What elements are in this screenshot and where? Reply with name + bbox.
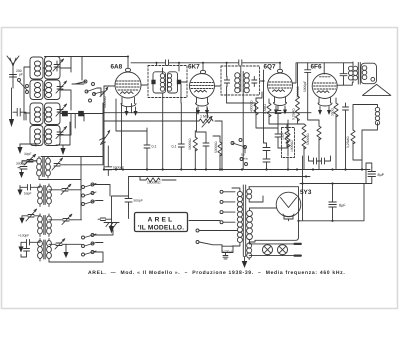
potentiometer volume 1M [104, 116, 222, 169]
wave switch bank upper [82, 183, 97, 206]
svg-text:30000Ω: 30000Ω [188, 138, 192, 150]
bus ground main [104, 169, 370, 171]
power transformer 5V winding [247, 187, 255, 202]
resistor 6F6 bias [317, 126, 321, 145]
svg-text:6F6: 6F6 [311, 64, 322, 71]
capacitor 5000pF bypass [105, 146, 112, 176]
power transformer T4 core [243, 185, 245, 257]
wire right verticals [303, 114, 346, 184]
resistor 6K7 cathode [193, 131, 197, 170]
ground padder C [18, 242, 26, 257]
ground coil A row [17, 144, 36, 154]
ground mains filter [223, 256, 228, 259]
capacitor 6F6 grid coupling [305, 63, 319, 126]
svg-text:5Y3: 5Y3 [300, 189, 312, 196]
wire T1 bottoms [163, 84, 181, 169]
svg-text:+100pF: +100pF [18, 234, 29, 238]
padder coil group C [38, 239, 52, 262]
wire 6K7 drops [195, 108, 207, 131]
padder coil group A [38, 184, 52, 207]
svg-text:8μF: 8μF [378, 173, 385, 177]
svg-text:0,1: 0,1 [152, 145, 157, 149]
svg-text:40000Ω: 40000Ω [250, 100, 254, 112]
power transformer 6.3V winding [247, 242, 252, 260]
resistor field divider [351, 107, 355, 152]
trimmer capacitor padder B [22, 209, 40, 221]
arrows 6A8 heater [125, 107, 138, 116]
svg-text:5000pF: 5000pF [223, 250, 233, 254]
ground padder A [17, 186, 22, 196]
svg-text:350Ω: 350Ω [331, 107, 335, 116]
oscillator trimmer 30pF [22, 154, 37, 165]
capacitor 6F6 cathode [340, 63, 347, 85]
svg-text:5000pF: 5000pF [303, 81, 307, 92]
wire antenna lead [12, 82, 14, 88]
wire 8uF right connect [366, 163, 372, 184]
capacitor coupling to 6Q7 [203, 60, 280, 70]
wire AVC link [129, 177, 141, 197]
ground oscillator [19, 169, 24, 178]
wire 6F6 plate to T3 [324, 63, 353, 85]
svg-text:5000pF: 5000pF [113, 166, 124, 170]
svg-text:6K7: 6K7 [188, 64, 200, 71]
ground coil B row [56, 122, 70, 155]
capacitor 0.1 right [178, 103, 184, 170]
svg-text:Fonia: Fonia [240, 157, 248, 161]
tube 6K7 U2 [190, 70, 215, 106]
svg-text:20000Ω: 20000Ω [296, 86, 300, 98]
svg-text:40000Ω: 40000Ω [103, 96, 107, 108]
pilot lamp L1 [263, 245, 273, 255]
coil box B4 [45, 126, 61, 146]
ground transformer center tap [242, 257, 248, 269]
svg-text:1 MΩ: 1 MΩ [200, 115, 209, 119]
capacitor 6Q7 [275, 106, 281, 118]
coil box A3 [30, 103, 43, 125]
trimmer capacitor B3 [56, 104, 67, 116]
wire padder outputs [66, 190, 82, 245]
wire oscillator to bus [22, 103, 103, 208]
capacitor coupling 6A8 osc [131, 60, 203, 71]
transformer primary taps [220, 190, 235, 223]
arrow AVC diagonal [100, 87, 109, 97]
svg-text:100000Ω: 100000Ω [147, 181, 161, 185]
capacitor screen bypass [197, 132, 210, 170]
coil box B2 [45, 80, 61, 100]
IF transformer T2 box [221, 66, 260, 95]
antenna [7, 56, 19, 77]
wire mains feed [189, 221, 238, 231]
capacitor 500pF detector [125, 196, 132, 205]
IF T1 secondary assembly [167, 72, 177, 93]
IF T1 trimmer left [151, 80, 155, 85]
capacitor detector bypass [98, 218, 112, 221]
capacitor 6F6 cathode bypass [343, 103, 349, 114]
wire 6K7 to T2 [215, 63, 267, 143]
power transformer primary winding [232, 188, 242, 246]
wire switch to grid bus [72, 84, 104, 112]
resistor 6Q7 grid leak [267, 99, 271, 120]
pilot lamp L2 [278, 245, 288, 255]
capacitor antenna 200pF [10, 75, 17, 83]
output transformer T3 [349, 62, 367, 84]
capacitor oscillator padder [18, 167, 27, 170]
arrows 6K7 heater [196, 107, 209, 116]
label box AREL [135, 213, 188, 232]
coil box B1 [45, 57, 61, 80]
ground detector arrow [104, 196, 129, 234]
wire 6Q7 couplings [256, 92, 297, 148]
capacitor AF coupling 10nF [275, 129, 281, 141]
IF T2 secondary coil [243, 72, 249, 93]
ground padder B [19, 216, 24, 224]
resistor AVC series [213, 136, 222, 170]
capacitor 0.1 left [144, 131, 150, 170]
ground padder C right [63, 244, 68, 258]
coil box A2 [30, 80, 43, 100]
wire filament lamps [249, 244, 297, 256]
IF T2 trimmer left [224, 77, 229, 87]
power transformer HV winding [247, 208, 255, 242]
bus AVC [129, 176, 311, 178]
svg-text:500pF: 500pF [134, 199, 143, 203]
resistor 6Q7 plate load [254, 98, 258, 118]
trimmer capacitor B2 [56, 81, 67, 93]
coil box A1 [30, 57, 43, 79]
tube 5Y3 rectifier [276, 192, 301, 219]
capacitor 8uF right [368, 168, 376, 181]
junction dots bus [103, 56, 363, 222]
svg-text:3000pF: 3000pF [16, 162, 27, 166]
trimmer block row3 a [62, 111, 68, 116]
resistor 6F6 cathode [334, 98, 338, 121]
svg-text:30pF: 30pF [24, 152, 32, 156]
arrows 6F6 heater [318, 107, 331, 116]
svg-text:200pF: 200pF [16, 69, 23, 76]
capacitor mains 5000pF [222, 245, 233, 256]
ground antenna arrow [9, 88, 14, 127]
svg-text:6Q7: 6Q7 [264, 64, 277, 71]
resistor long AVC [296, 63, 300, 124]
wire switch bank out [49, 185, 113, 263]
wave switch bank lower [82, 234, 97, 257]
capacitor padder A 50pF [22, 185, 40, 191]
capacitor aerial series [13, 109, 26, 121]
trimmer block row3 b [78, 111, 84, 116]
svg-text:10000Ω: 10000Ω [290, 140, 294, 152]
capacitor padder C 100pF [21, 240, 40, 246]
trimmer capacitor padder A right [49, 184, 72, 194]
svg-text:50000Ω: 50000Ω [306, 133, 310, 145]
svg-text:AREL: AREL [148, 217, 175, 224]
trimmer capacitor B4 [56, 127, 67, 139]
svg-text:6A8: 6A8 [111, 64, 123, 71]
wire coil interconnect mid [43, 68, 104, 135]
switch antenna [18, 79, 29, 94]
svg-text:AREL. — Mod. « Il Modello ».: AREL. — Mod. « Il Modello ». – Produzion… [88, 270, 345, 276]
wire 8uF mid connect [332, 184, 334, 221]
coil box A4 [30, 126, 43, 146]
wire field coil down [353, 152, 362, 160]
resistor AF grid [285, 124, 289, 146]
switch fonia [231, 139, 248, 166]
bus B+ bottom [299, 184, 365, 221]
trimmer capacitor padder B right [49, 214, 72, 224]
capacitor padder C2 [24, 245, 30, 254]
terminal heater B [295, 255, 301, 257]
wire coil interconnect left [24, 67, 30, 120]
bus right lower [300, 183, 366, 185]
trimmer capacitor padder C right [49, 239, 66, 249]
wire T2 bottoms [227, 87, 244, 170]
trimmer capacitor B1 [53, 59, 64, 71]
speaker cone [361, 63, 391, 95]
wire 6A8 to T1 [157, 63, 188, 82]
resistor AF divider lower [298, 124, 307, 170]
mains switch interruttore [196, 229, 222, 245]
field coil dashed box [282, 120, 295, 170]
svg-text:0,1: 0,1 [172, 145, 177, 149]
wire top coil to 6A8 grid [45, 57, 129, 81]
tube 6A8 U1 [115, 68, 141, 106]
IF transformer T1 box [148, 66, 187, 98]
coil box B3 [45, 103, 61, 125]
wire 6K7 top grid [202, 63, 204, 71]
wire HV bottom to lamp bus [250, 240, 256, 242]
svg-text:0,25MΩ: 0,25MΩ [292, 108, 296, 120]
padder coil group B [38, 214, 52, 237]
IF T1 trimmer right [177, 80, 181, 85]
resistor AVC horizontal [140, 178, 176, 182]
wire 5Y3 plate top [249, 187, 299, 241]
IF T1 primary assembly [153, 72, 166, 93]
variable capacitor oscillator [52, 158, 65, 170]
wire 6Q7 plate up [293, 63, 325, 83]
wire verticals to bus [104, 86, 147, 170]
tube 6F6 U4 [312, 74, 337, 107]
svg-text:50000Ω: 50000Ω [214, 141, 218, 153]
band switch contacts [75, 80, 101, 102]
oscillator coil L5 [37, 157, 51, 180]
svg-text:10μF: 10μF [281, 132, 285, 140]
IF T2 trimmer right [252, 77, 257, 87]
svg-text:’IL MODELLO.: ’IL MODELLO. [138, 225, 185, 232]
capacitor 8uF mid [329, 198, 337, 211]
terminal heater A [295, 243, 301, 245]
arrows 6Q7 heater [274, 106, 287, 115]
svg-text:0,5MΩ: 0,5MΩ [263, 104, 267, 114]
tube 6Q7 U3 [268, 69, 293, 105]
svg-text:0,25MΩ: 0,25MΩ [346, 136, 350, 148]
speaker field coil [353, 105, 380, 170]
capacitor electrolytic 25uF pair [263, 143, 270, 170]
svg-text:50pF: 50pF [24, 192, 32, 196]
arrow volume wiper [100, 130, 111, 145]
svg-text:8μF: 8μF [339, 204, 346, 208]
IF T2 primary coil [235, 72, 241, 93]
capacitor tone pair [309, 156, 331, 164]
wire 6A8 plate drop [104, 85, 148, 170]
wire 5Y3 plate left [255, 196, 293, 221]
bus screen mid [103, 103, 311, 113]
